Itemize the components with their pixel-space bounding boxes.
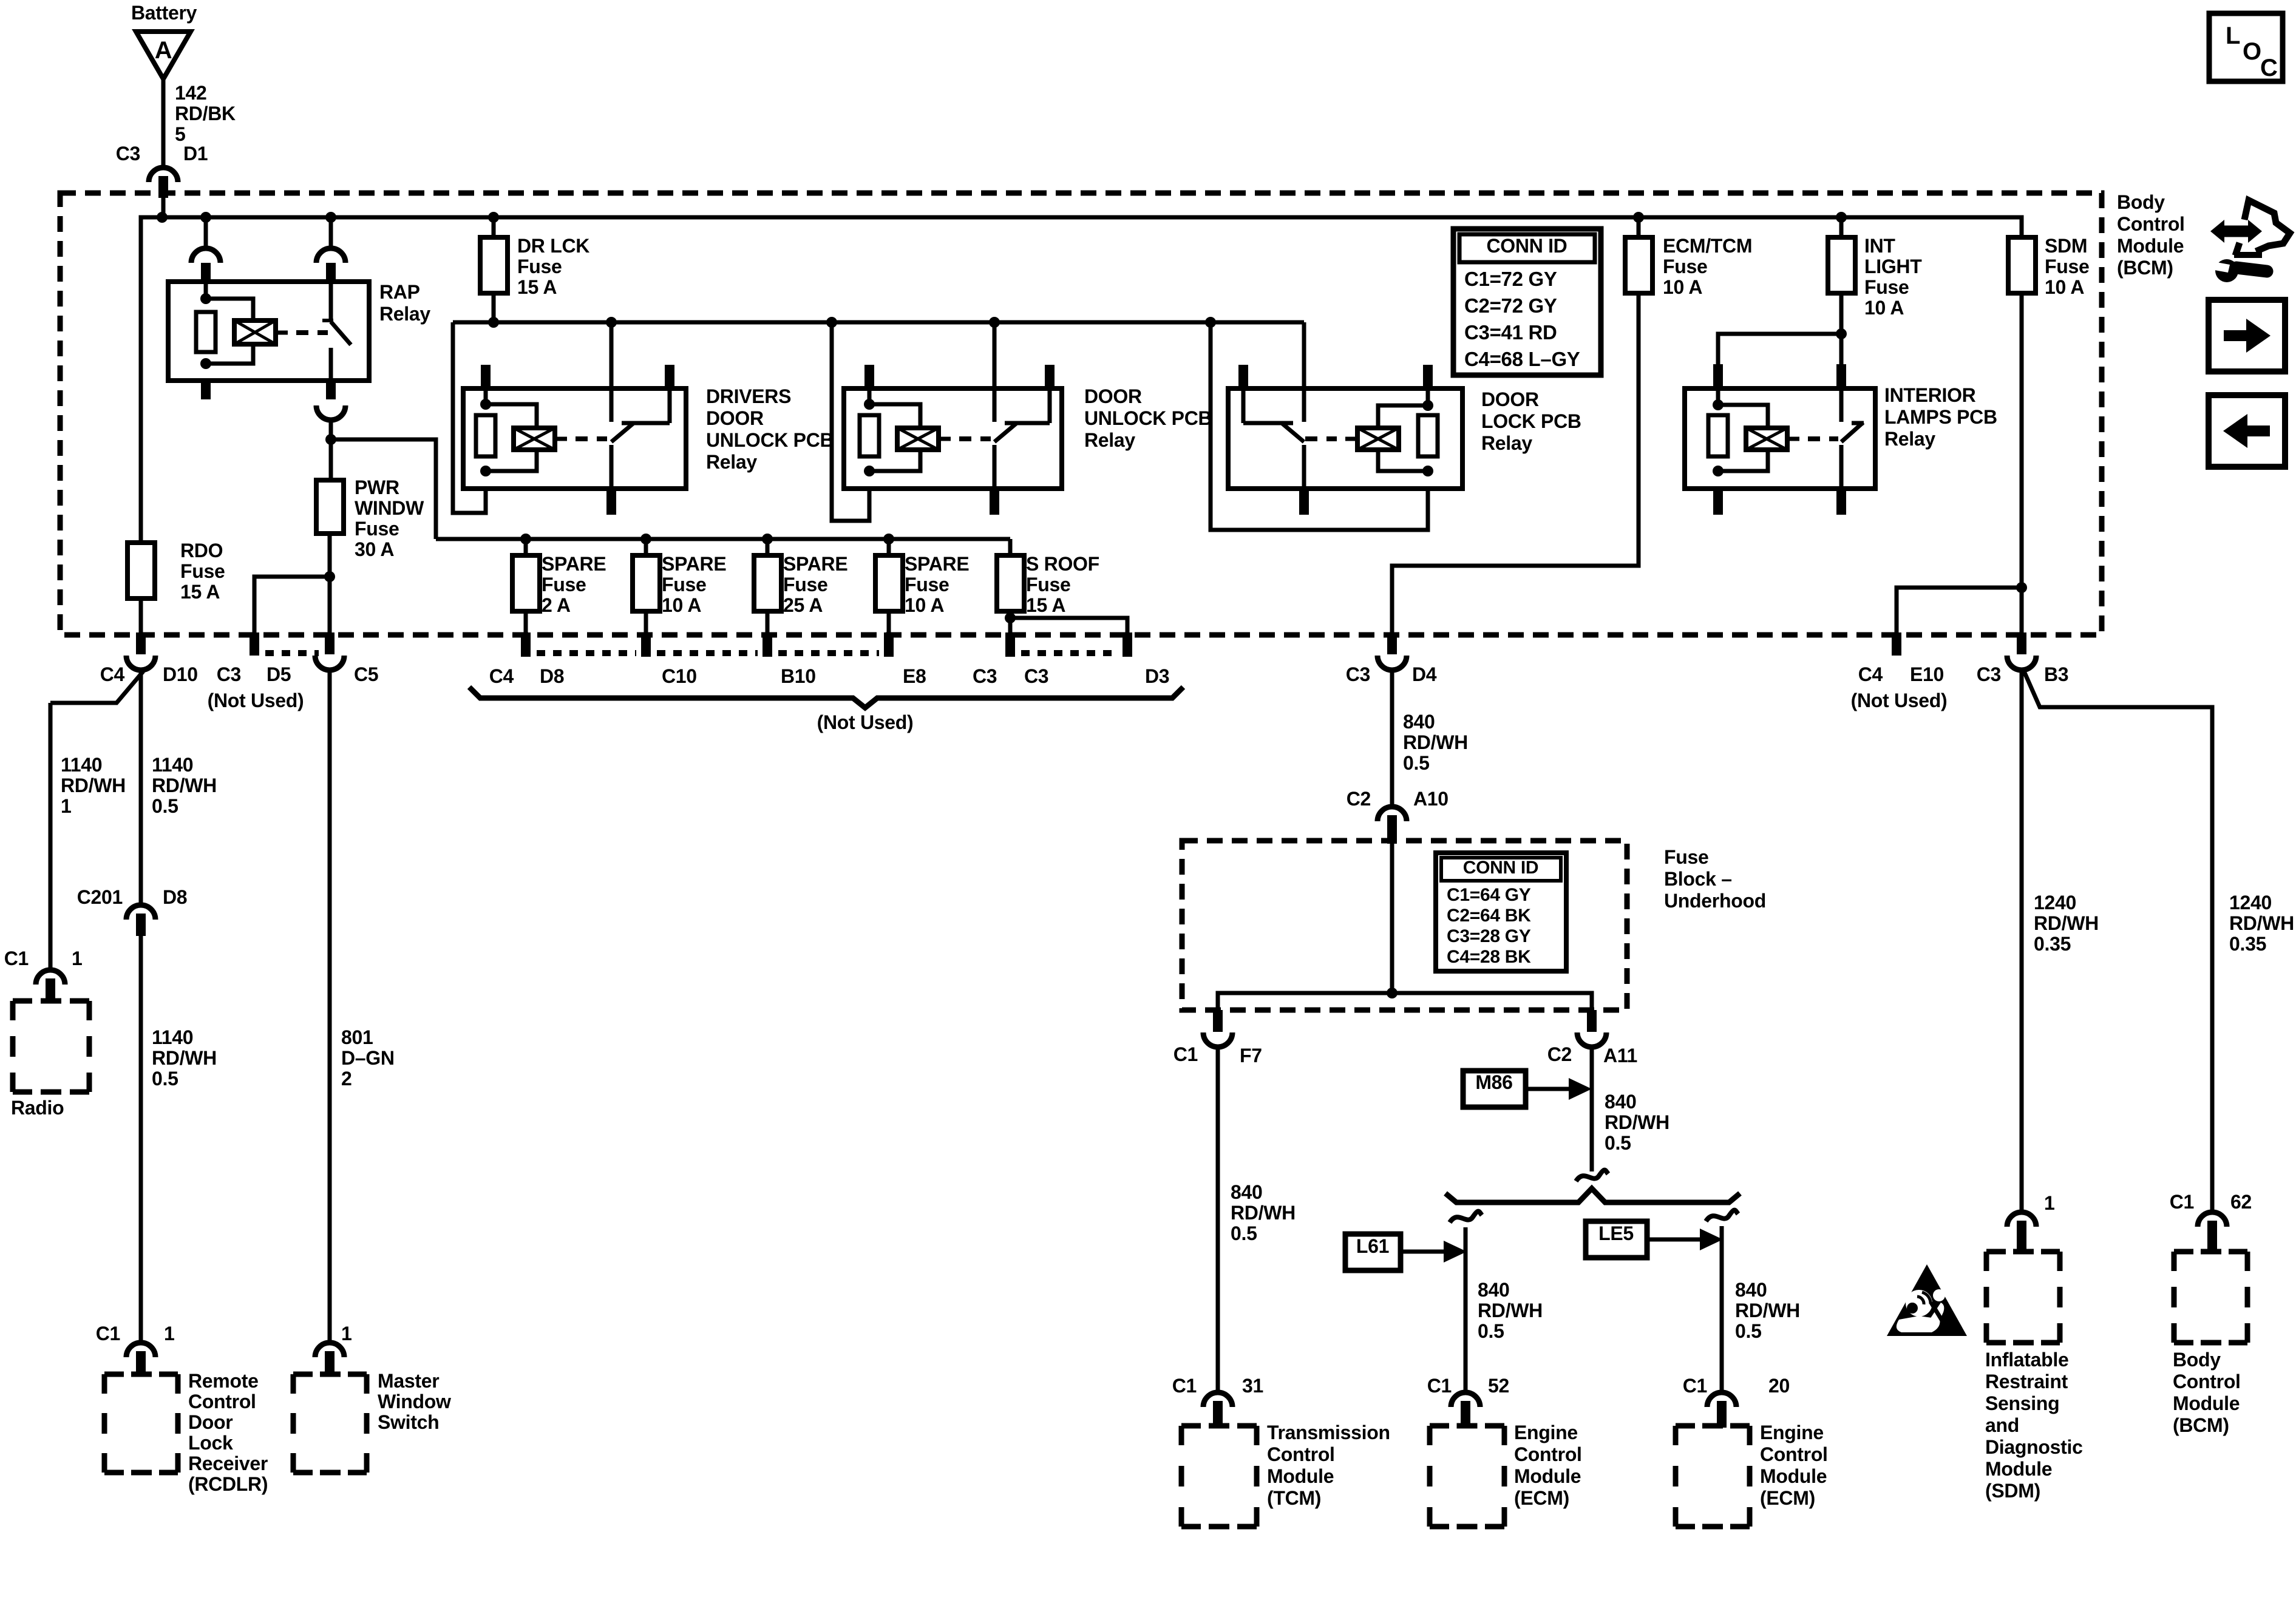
svg-text:L61: L61 — [1356, 1235, 1389, 1257]
svg-text:INT: INT — [1864, 235, 1895, 257]
svg-text:(BCM): (BCM) — [2173, 1414, 2229, 1436]
svg-text:SPARE: SPARE — [783, 553, 847, 575]
svg-text:D–GN: D–GN — [341, 1047, 395, 1069]
svg-text:C2=64 BK: C2=64 BK — [1447, 906, 1531, 926]
svg-text:Fuse: Fuse — [905, 574, 949, 595]
svg-text:C1=72 GY: C1=72 GY — [1464, 268, 1557, 290]
svg-text:Receiver: Receiver — [188, 1453, 268, 1474]
svg-text:Control: Control — [1760, 1443, 1828, 1465]
svg-text:Engine: Engine — [1760, 1422, 1824, 1443]
svg-text:C5: C5 — [354, 663, 378, 685]
svg-text:C3: C3 — [1346, 663, 1370, 685]
svg-text:2 A: 2 A — [542, 594, 571, 616]
svg-text:LOCK PCB: LOCK PCB — [1481, 410, 1581, 432]
SDM dashed box — [1986, 1252, 2060, 1343]
svg-text:30 A: 30 A — [355, 538, 394, 560]
svg-text:C1: C1 — [1683, 1375, 1707, 1397]
svg-text:Control: Control — [2173, 1371, 2241, 1392]
svg-text:C2=72 GY: C2=72 GY — [1464, 294, 1557, 317]
svg-text:840: 840 — [1403, 711, 1435, 733]
fuse RDO 15A — [127, 540, 225, 603]
svg-text:LAMPS PCB: LAMPS PCB — [1884, 406, 1997, 428]
svg-text:C4=28 BK: C4=28 BK — [1447, 947, 1531, 967]
svg-text:142: 142 — [175, 82, 207, 104]
label Body Control Module (BCM) — [2117, 191, 2185, 279]
svg-text:10 A: 10 A — [1864, 297, 1904, 319]
svg-text:D10: D10 — [163, 663, 198, 685]
svg-text:E10: E10 — [1910, 663, 1944, 685]
svg-text:(TCM): (TCM) — [1267, 1487, 1321, 1509]
svg-text:Fuse: Fuse — [1664, 846, 1709, 868]
svg-text:RD/WH: RD/WH — [152, 775, 217, 796]
svg-text:2: 2 — [341, 1068, 352, 1090]
svg-text:Inflatable: Inflatable — [1985, 1349, 2068, 1371]
svg-text:(Not Used): (Not Used) — [1851, 690, 1948, 711]
wire relay feed rail — [453, 293, 1304, 328]
svg-text:Restraint: Restraint — [1985, 1371, 2068, 1392]
svg-text:Relay: Relay — [379, 303, 430, 325]
svg-text:ECM/TCM: ECM/TCM — [1663, 235, 1752, 257]
svg-text:D8: D8 — [540, 665, 564, 687]
svg-text:0.5: 0.5 — [152, 795, 178, 817]
wire D10 to C201/D8 — [141, 670, 217, 906]
svg-text:RDO: RDO — [180, 540, 223, 561]
svg-text:10 A: 10 A — [662, 594, 701, 616]
svg-text:C4: C4 — [1858, 663, 1883, 685]
svg-text:1: 1 — [2044, 1192, 2055, 1214]
svg-text:UNLOCK PCB: UNLOCK PCB — [1084, 407, 1212, 429]
icon arrow left box — [2209, 395, 2285, 467]
dotted not-used links spare fuses — [265, 650, 1117, 656]
svg-text:1140: 1140 — [61, 754, 102, 776]
svg-text:(SDM): (SDM) — [1985, 1480, 2040, 1502]
svg-text:Remote: Remote — [188, 1370, 259, 1392]
label Body Control Module (BCM) bottom — [2173, 1349, 2241, 1436]
svg-text:F7: F7 — [1240, 1045, 1262, 1066]
svg-text:C4: C4 — [100, 663, 125, 685]
svg-text:Control: Control — [1267, 1443, 1335, 1465]
svg-text:Diagnostic: Diagnostic — [1985, 1436, 2083, 1458]
wire bus to RDO fuse — [139, 217, 143, 543]
L61 option box — [1345, 1234, 1467, 1270]
connector C3 D1 — [116, 143, 208, 198]
svg-text:DR LCK: DR LCK — [517, 235, 589, 257]
label INTERIOR LAMPS PCB Relay — [1884, 384, 1997, 450]
svg-text:10 A: 10 A — [1663, 276, 1702, 298]
svg-text:Engine: Engine — [1514, 1422, 1578, 1443]
svg-text:(RCDLR): (RCDLR) — [188, 1473, 268, 1495]
svg-text:Body: Body — [2117, 191, 2165, 213]
svg-text:Fuse: Fuse — [1026, 574, 1071, 595]
svg-text:RD/WH: RD/WH — [1403, 731, 1468, 753]
svg-text:25 A: 25 A — [783, 594, 823, 616]
svg-text:(Not Used): (Not Used) — [208, 690, 304, 711]
wire D4 to C2/A10 — [1392, 670, 1468, 807]
svg-text:C3: C3 — [973, 665, 997, 687]
label Transmission Control Module (TCM) — [1267, 1422, 1390, 1509]
fuse PWR WINDW 30A — [316, 476, 424, 560]
label DOOR LOCK PCB Relay — [1481, 388, 1581, 454]
relay DOOR UNLOCK PCB — [832, 322, 1062, 521]
svg-text:C2: C2 — [1547, 1043, 1572, 1065]
svg-text:B10: B10 — [781, 665, 816, 687]
svg-text:L: L — [2226, 22, 2240, 49]
M86 option box — [1463, 1071, 1592, 1107]
svg-text:CONN ID: CONN ID — [1486, 235, 1567, 257]
fuse ECM/TCM 10A — [1625, 217, 1752, 298]
svg-text:Door: Door — [188, 1411, 233, 1433]
svg-text:RD/WH: RD/WH — [1735, 1300, 1800, 1321]
svg-text:LE5: LE5 — [1598, 1222, 1634, 1244]
svg-text:WINDW: WINDW — [355, 497, 424, 519]
svg-text:SDM: SDM — [2045, 235, 2087, 257]
svg-text:and: and — [1985, 1414, 2019, 1436]
svg-text:M86: M86 — [1475, 1071, 1512, 1093]
svg-text:840: 840 — [1605, 1091, 1637, 1113]
svg-text:Relay: Relay — [1884, 428, 1935, 450]
svg-text:RD/WH: RD/WH — [1605, 1111, 1669, 1133]
svg-text:C1: C1 — [4, 947, 29, 969]
wire right split to C1 20 — [1706, 1210, 1800, 1392]
connector C1 1 radio — [4, 947, 83, 1003]
label Engine Control Module (ECM) 1 — [1514, 1422, 1582, 1509]
svg-text:20: 20 — [1768, 1375, 1790, 1397]
svg-text:RD/WH: RD/WH — [1478, 1300, 1543, 1321]
wire C4 branch to radio — [50, 671, 143, 971]
connector C1 52 ECM — [1427, 1375, 1509, 1428]
icon vehicle with arrow and wrench — [2210, 200, 2290, 282]
svg-text:Control: Control — [188, 1391, 256, 1412]
svg-text:0.5: 0.5 — [152, 1068, 178, 1090]
LOC reference box — [2209, 13, 2283, 81]
svg-text:SPARE: SPARE — [662, 553, 726, 575]
svg-text:840: 840 — [1231, 1181, 1263, 1203]
svg-text:C1=64 GY: C1=64 GY — [1447, 885, 1531, 905]
svg-text:Fuse: Fuse — [1864, 276, 1909, 298]
svg-text:10 A: 10 A — [2045, 276, 2084, 298]
svg-text:SPARE: SPARE — [905, 553, 969, 575]
svg-text:Fuse: Fuse — [1663, 256, 1708, 277]
svg-text:1140: 1140 — [152, 1026, 193, 1048]
Body Control Module (BCM) dashed boundary — [60, 193, 2102, 635]
svg-text:Module: Module — [1985, 1458, 2052, 1480]
svg-text:A: A — [155, 37, 172, 64]
svg-text:Body: Body — [2173, 1349, 2221, 1371]
svg-text:C2: C2 — [1347, 788, 1371, 810]
fuse SPARE 25 A — [754, 553, 847, 657]
connector C3 D5 stub (not used) — [250, 632, 259, 656]
svg-text:Switch: Switch — [378, 1411, 439, 1433]
svg-text:Underhood: Underhood — [1664, 890, 1766, 912]
svg-text:Relay: Relay — [706, 451, 757, 473]
svg-text:15 A: 15 A — [180, 581, 220, 603]
svg-text:1: 1 — [341, 1323, 352, 1344]
svg-text:Block –: Block – — [1664, 868, 1732, 890]
svg-text:A11: A11 — [1603, 1045, 1637, 1066]
svg-text:D4: D4 — [1412, 663, 1437, 685]
svg-text:C1: C1 — [1172, 1375, 1197, 1397]
connector C1 31 TCM — [1172, 1375, 1263, 1428]
svg-text:1240: 1240 — [2034, 892, 2076, 914]
wire B3 branch to BCM module — [2024, 671, 2294, 1209]
svg-text:Relay: Relay — [1481, 432, 1532, 454]
wire RAP output to PWR WINDW fuse and spare-fuse feed — [325, 434, 436, 539]
svg-text:D8: D8 — [163, 886, 187, 908]
wire C5 to Master Window Switch — [330, 670, 395, 1343]
label RAP Relay — [379, 281, 430, 325]
svg-text:Lock: Lock — [188, 1432, 233, 1454]
connector C1 1 RCDLR — [96, 1323, 175, 1375]
svg-text:RAP: RAP — [379, 281, 420, 303]
svg-text:(Not Used): (Not Used) — [817, 711, 914, 733]
label Radio — [11, 1097, 64, 1119]
master window switch dashed box — [293, 1374, 367, 1473]
svg-text:31: 31 — [1242, 1375, 1263, 1397]
svg-text:840: 840 — [1735, 1279, 1767, 1301]
svg-text:D1: D1 — [183, 143, 208, 164]
svg-text:C1: C1 — [1427, 1375, 1452, 1397]
svg-text:DOOR: DOOR — [706, 407, 764, 429]
label Inflatable Restraint Sensing and Diagnostic Module (SDM) — [1985, 1349, 2083, 1502]
svg-text:D5: D5 — [267, 663, 291, 685]
fuse INT LIGHT 10A — [1828, 217, 1922, 319]
svg-text:840: 840 — [1478, 1279, 1510, 1301]
wire spare fuse rail — [436, 534, 1010, 555]
ECM dashed box 1 — [1430, 1426, 1504, 1527]
connector C2 A11 — [1547, 1010, 1637, 1066]
svg-text:RD/WH: RD/WH — [2034, 912, 2099, 934]
svg-text:C3: C3 — [1024, 665, 1048, 687]
radio dashed box — [13, 1001, 89, 1092]
connector below RAP switch — [316, 405, 345, 439]
svg-text:0.5: 0.5 — [1478, 1320, 1504, 1342]
svg-text:RD/WH: RD/WH — [61, 775, 126, 796]
svg-text:C1: C1 — [1173, 1043, 1198, 1065]
svg-text:Control: Control — [2117, 213, 2185, 235]
wire battery to C3/D1 — [163, 79, 236, 169]
label Master Window Switch — [378, 1370, 451, 1433]
wire RDO fuse to C4/D10 — [139, 598, 143, 632]
svg-text:Module: Module — [1760, 1465, 1827, 1487]
svg-text:0.5: 0.5 — [1403, 752, 1430, 774]
fuse S ROOF 15 A — [997, 553, 1099, 657]
svg-text:(ECM): (ECM) — [1514, 1487, 1569, 1509]
battery A symbol — [136, 32, 191, 79]
svg-text:62: 62 — [2230, 1191, 2252, 1213]
svg-text:UNLOCK PCB: UNLOCK PCB — [706, 429, 834, 451]
icon arrow right box — [2209, 300, 2285, 371]
svg-text:RD/WH: RD/WH — [152, 1047, 217, 1069]
connector C1 62 BCM — [2170, 1191, 2252, 1253]
ECM dashed box 2 — [1676, 1426, 1750, 1527]
TCM dashed box — [1181, 1426, 1257, 1527]
relay RAP — [168, 282, 369, 399]
svg-text:C4: C4 — [489, 665, 514, 687]
svg-text:0.35: 0.35 — [2034, 933, 2071, 955]
svg-text:Window: Window — [378, 1391, 451, 1412]
connector C3 B3 — [1977, 632, 2069, 685]
svg-text:C3: C3 — [116, 143, 140, 164]
svg-text:15 A: 15 A — [517, 276, 557, 298]
svg-text:C3=41 RD: C3=41 RD — [1464, 321, 1557, 344]
connector C4 D10 — [100, 632, 198, 685]
battery A label — [131, 2, 197, 24]
svg-text:1: 1 — [61, 795, 72, 817]
svg-text:0.5: 0.5 — [1605, 1132, 1631, 1154]
svg-text:C3: C3 — [1977, 663, 2001, 685]
fuse block underhood dashed box — [1182, 841, 1627, 1010]
relay DRIVERS DOOR UNLOCK PCB — [453, 322, 686, 515]
svg-text:Fuse: Fuse — [783, 574, 828, 595]
svg-text:SPARE: SPARE — [542, 553, 606, 575]
svg-text:0.5: 0.5 — [1735, 1320, 1762, 1342]
connector RAP relay switch pin — [316, 217, 345, 283]
svg-text:B3: B3 — [2044, 663, 2068, 685]
wire left split to C1 52 — [1450, 1212, 1543, 1392]
LE5 option box — [1586, 1221, 1723, 1258]
svg-text:RD/WH: RD/WH — [2229, 912, 2294, 934]
svg-text:0.35: 0.35 — [2229, 933, 2266, 955]
svg-text:Fuse: Fuse — [180, 560, 225, 582]
svg-text:O: O — [2243, 38, 2261, 65]
svg-text:Sensing: Sensing — [1985, 1392, 2059, 1414]
svg-text:1140: 1140 — [152, 754, 193, 776]
svg-text:Fuse: Fuse — [2045, 256, 2090, 277]
svg-text:DOOR: DOOR — [1481, 388, 1539, 410]
svg-text:RD/BK: RD/BK — [175, 103, 236, 124]
svg-text:LIGHT: LIGHT — [1864, 256, 1922, 277]
svg-text:C201: C201 — [77, 886, 123, 908]
wire A11 down to split brace — [1576, 1047, 1669, 1181]
svg-text:INTERIOR: INTERIOR — [1884, 384, 1976, 406]
svg-text:Fuse: Fuse — [355, 518, 399, 540]
BCM module dashed box — [2174, 1252, 2247, 1343]
svg-text:Relay: Relay — [1084, 429, 1135, 451]
connector C1 F7 — [1173, 1010, 1262, 1066]
fuse DR LCK 15A — [480, 217, 589, 298]
wire B3 to SDM module — [2022, 670, 2099, 1209]
wire ECM/TCM fuse to C3/D4 — [1392, 293, 1639, 632]
labels bottom connector pins — [208, 663, 1170, 711]
svg-text:10 A: 10 A — [905, 594, 944, 616]
svg-text:Module: Module — [2117, 235, 2184, 257]
svg-text:DOOR: DOOR — [1084, 385, 1142, 407]
fuse SPARE 10 A — [633, 553, 726, 657]
connector C1 20 ECM — [1683, 1375, 1790, 1428]
svg-text:C1: C1 — [2170, 1191, 2194, 1213]
svg-text:Radio: Radio — [11, 1097, 64, 1119]
svg-text:C10: C10 — [662, 665, 697, 687]
svg-text:1: 1 — [164, 1323, 175, 1344]
svg-text:E8: E8 — [903, 665, 926, 687]
wire F7 to TCM — [1218, 1047, 1296, 1392]
connector C2 A10 — [1347, 788, 1449, 844]
underhood CONN ID table — [1436, 853, 1566, 971]
relay INTERIOR LAMPS PCB — [1685, 293, 1875, 515]
label Fuse Block - Underhood — [1664, 846, 1766, 912]
label Remote Control Door Lock Receiver (RCDLR) — [188, 1370, 268, 1495]
svg-text:Transmission: Transmission — [1267, 1422, 1390, 1443]
svg-text:Fuse: Fuse — [517, 256, 562, 277]
svg-text:(ECM): (ECM) — [1760, 1487, 1815, 1509]
svg-text:C4=68 L–GY: C4=68 L–GY — [1464, 348, 1580, 370]
svg-text:DRIVERS: DRIVERS — [706, 385, 791, 407]
connector C201 D8 — [77, 886, 188, 936]
label Engine Control Module (ECM) 2 — [1760, 1422, 1828, 1509]
fuse SPARE 10 A — [875, 553, 969, 657]
connector RAP relay coil pin — [191, 217, 220, 283]
svg-text:D3: D3 — [1145, 665, 1169, 687]
wire S ROOF jumper to D3 — [1005, 612, 1127, 657]
svg-text:0.5: 0.5 — [1231, 1222, 1257, 1244]
svg-text:A10: A10 — [1413, 788, 1449, 810]
wire main battery bus inside BCM — [141, 195, 2022, 543]
svg-text:15 A: 15 A — [1026, 594, 1065, 616]
svg-text:S ROOF: S ROOF — [1026, 553, 1099, 575]
svg-text:52: 52 — [1488, 1375, 1509, 1397]
connector C5 — [315, 632, 344, 670]
svg-text:Control: Control — [1514, 1443, 1582, 1465]
connector C4 E10 stub (not used) — [1851, 632, 1948, 711]
wire PWR WINDW fuse to C5 and D5 jumper — [254, 534, 335, 632]
wire D8 to RCDLR — [141, 936, 217, 1343]
relay DOOR LOCK PCB — [1211, 322, 1462, 530]
svg-text:PWR: PWR — [355, 476, 399, 498]
svg-text:Module: Module — [1514, 1465, 1581, 1487]
svg-text:C3: C3 — [217, 663, 241, 685]
connector C3 D4 — [1346, 632, 1437, 685]
svg-text:C1: C1 — [96, 1323, 120, 1344]
svg-text:5: 5 — [175, 123, 186, 145]
RCDLR dashed box — [104, 1374, 178, 1473]
brace not used fuse outputs — [469, 687, 1183, 733]
svg-text:Battery: Battery — [131, 2, 197, 24]
svg-text:Module: Module — [1267, 1465, 1334, 1487]
connector 1 master window switch — [315, 1323, 352, 1375]
svg-text:CONN ID: CONN ID — [1463, 858, 1539, 878]
fuse SDM 10A — [2008, 235, 2090, 298]
fuse SPARE 2 A — [512, 553, 606, 657]
label DOOR UNLOCK PCB Relay — [1084, 385, 1212, 451]
wire SDM fuse to C3/B3 and E10 branch — [1897, 293, 2027, 632]
svg-text:Fuse: Fuse — [542, 574, 586, 595]
warning triangle airbag icon — [1887, 1264, 1967, 1336]
svg-text:RD/WH: RD/WH — [1231, 1202, 1296, 1224]
svg-text:Module: Module — [2173, 1392, 2240, 1414]
svg-text:C: C — [2260, 55, 2278, 81]
svg-text:801: 801 — [341, 1026, 373, 1048]
svg-text:(BCM): (BCM) — [2117, 257, 2173, 279]
wire A10 to F7 and A11 drops — [1218, 844, 1592, 1010]
label DRIVERS DOOR UNLOCK PCB Relay — [706, 385, 834, 473]
svg-text:Master: Master — [378, 1370, 439, 1392]
svg-text:1240: 1240 — [2229, 892, 2272, 914]
svg-text:C3=28 GY: C3=28 GY — [1447, 926, 1531, 946]
connector 1 SDM — [2007, 1192, 2055, 1253]
brace split to two ECM feeds — [1445, 1188, 1740, 1202]
svg-text:Fuse: Fuse — [662, 574, 707, 595]
BCM CONN ID table — [1453, 229, 1601, 375]
svg-text:1: 1 — [72, 947, 83, 969]
